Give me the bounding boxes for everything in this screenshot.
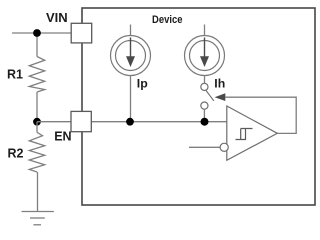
- wire divider vertical upper: [36, 33, 38, 57]
- wire Ip to EN wire: [130, 76, 132, 122]
- switch blade: [206, 90, 214, 101]
- node Ip junction: [126, 118, 134, 126]
- current source Ih: [185, 25, 225, 76]
- switch top contact: [201, 83, 208, 90]
- svg-text:VIN: VIN: [46, 10, 68, 25]
- node switch junction: [201, 118, 209, 126]
- wire R1 to EN node: [36, 92, 38, 122]
- comparator U1: [227, 106, 277, 160]
- resistor R1: [29, 57, 44, 93]
- node VIN junction: [33, 29, 41, 37]
- wire switch to EN wire: [203, 109, 205, 122]
- wire R2 to ground: [37, 172, 39, 212]
- svg-text:R1: R1: [7, 68, 23, 82]
- node divider EN junction: [33, 118, 41, 126]
- resistor R2: [29, 132, 44, 172]
- device box: [82, 8, 315, 205]
- pad VIN: [71, 23, 92, 43]
- feedback wire: [225, 97, 296, 133]
- ground: [22, 212, 54, 225]
- svg-text:R2: R2: [8, 147, 24, 161]
- current source Ip: [111, 25, 151, 76]
- wire VIN top: [12, 32, 71, 34]
- inverting input bubble: [220, 143, 228, 151]
- wire EN node to R2: [36, 122, 38, 133]
- hysteresis symbol: [236, 129, 253, 140]
- wire inverting input: [189, 146, 220, 148]
- pad EN: [71, 111, 91, 131]
- svg-text:Ih: Ih: [214, 76, 225, 90]
- switch bottom contact: [201, 102, 208, 109]
- switch control arrowhead: [215, 93, 226, 101]
- svg-text:EN: EN: [54, 130, 71, 144]
- svg-text:Device: Device: [152, 14, 183, 26]
- wire EN horizontal: [37, 121, 227, 123]
- svg-text:Ip: Ip: [137, 77, 148, 91]
- wire Ih to switch: [204, 76, 206, 84]
